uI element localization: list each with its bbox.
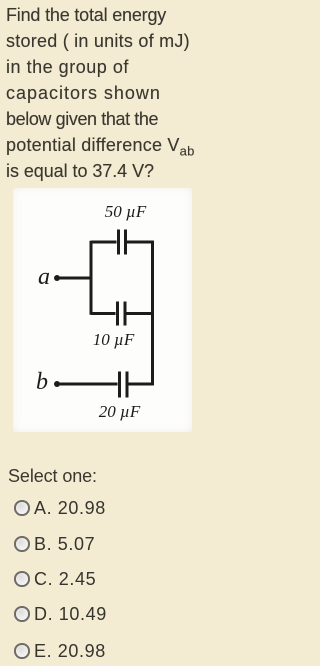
wire right rail vertical — [151, 241, 154, 386]
option B label — [34, 534, 95, 555]
option A radio — [14, 500, 30, 516]
option E label — [34, 641, 106, 662]
svg-text:a: a — [38, 264, 50, 290]
option C radio — [14, 571, 30, 587]
wire middle-right horizontal (C2 right plate to right rail) — [127, 312, 154, 315]
capacitor C3 (20 µF) plates — [120, 372, 128, 398]
capacitor C2 (10 µF) plates — [118, 302, 126, 326]
wire node a to left rail — [57, 277, 93, 280]
wire middle-left horizontal (left rail to C2 left plate) — [91, 312, 116, 315]
wire node b to C3 left plate — [57, 383, 118, 386]
option D label — [34, 604, 107, 625]
option D radio — [14, 606, 30, 622]
node a terminal dot — [54, 275, 60, 281]
svg-text:20 µF: 20 µF — [99, 402, 141, 421]
circuit panel — [13, 188, 192, 432]
wire top-left horizontal (node to C1 left plate) — [91, 241, 117, 244]
option A label — [34, 498, 106, 519]
option E radio — [14, 643, 30, 659]
svg-text:b: b — [36, 369, 48, 395]
svg-text:50 µF: 50 µF — [105, 202, 147, 221]
wire top-right horizontal (C1 right plate to right rail) — [127, 241, 154, 244]
node b terminal dot — [54, 381, 60, 387]
wire left rail vertical — [90, 241, 93, 315]
option C label — [34, 569, 96, 590]
option B radio — [14, 536, 30, 552]
capacitor C1 (50 µF) plates — [119, 230, 126, 255]
svg-text:10 µF: 10 µF — [93, 330, 135, 349]
wire C3 right plate to right rail — [129, 383, 154, 386]
